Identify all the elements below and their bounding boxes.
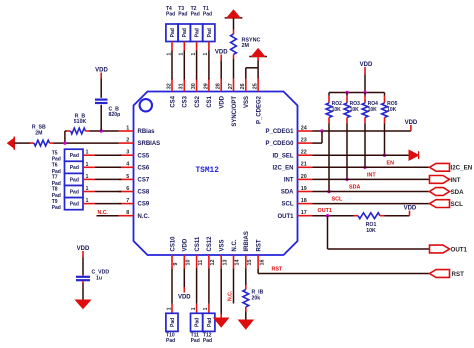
svg-text:CS3: CS3 <box>183 95 189 107</box>
svg-text:2M: 2M <box>242 43 250 49</box>
svg-text:INT: INT <box>451 177 461 184</box>
svg-text:31: 31 <box>179 83 185 89</box>
svg-text:Pad: Pad <box>178 12 187 18</box>
svg-text:SDA: SDA <box>281 190 294 196</box>
svg-text:VDD: VDD <box>183 238 189 251</box>
svg-text:12: 12 <box>210 260 216 266</box>
svg-text:OUT1: OUT1 <box>318 208 332 214</box>
svg-text:19: 19 <box>301 186 307 192</box>
svg-text:T9: T9 <box>52 199 58 205</box>
svg-text:Pad: Pad <box>170 318 176 327</box>
svg-text:20: 20 <box>301 174 307 180</box>
svg-text:CS1: CS1 <box>207 95 213 107</box>
svg-text:1: 1 <box>203 53 209 56</box>
svg-text:Pad: Pad <box>70 189 79 195</box>
svg-text:Pad: Pad <box>182 28 188 37</box>
svg-text:SRBIAS: SRBIAS <box>138 141 161 147</box>
svg-text:1: 1 <box>86 150 89 156</box>
svg-text:1: 1 <box>203 307 209 310</box>
svg-text:1: 1 <box>179 53 185 56</box>
svg-text:VDD: VDD <box>405 120 418 126</box>
svg-text:Pad: Pad <box>195 28 201 37</box>
svg-text:P_CDEG0: P_CDEG0 <box>265 141 294 147</box>
svg-text:1: 1 <box>86 198 89 204</box>
svg-text:1: 1 <box>86 174 89 180</box>
svg-text:VSS: VSS <box>244 96 250 108</box>
svg-text:SCL: SCL <box>451 201 464 208</box>
svg-text:10K: 10K <box>350 107 360 113</box>
svg-text:SDA: SDA <box>451 189 465 196</box>
svg-text:2M: 2M <box>35 130 42 136</box>
svg-text:25: 25 <box>253 83 259 89</box>
svg-text:15: 15 <box>247 260 253 266</box>
svg-text:Pad: Pad <box>70 202 79 208</box>
svg-text:VSS: VSS <box>220 239 226 251</box>
svg-text:5: 5 <box>126 174 129 180</box>
svg-text:7: 7 <box>126 198 129 204</box>
svg-text:9: 9 <box>173 263 179 266</box>
svg-text:T8: T8 <box>52 187 58 193</box>
svg-text:RBias: RBias <box>138 129 156 135</box>
svg-text:10K: 10K <box>366 228 376 234</box>
svg-text:Pad: Pad <box>52 205 61 211</box>
svg-text:10: 10 <box>186 260 192 266</box>
svg-text:20k: 20k <box>252 296 261 302</box>
svg-text:VDD: VDD <box>220 95 226 108</box>
svg-text:13: 13 <box>222 260 228 266</box>
svg-text:CS4: CS4 <box>170 95 176 107</box>
svg-text:N.C.: N.C. <box>228 290 234 301</box>
svg-text:Pad: Pad <box>191 12 200 18</box>
svg-text:510K: 510K <box>74 119 87 125</box>
svg-text:32: 32 <box>166 83 172 89</box>
svg-text:T5: T5 <box>52 150 58 156</box>
svg-text:18: 18 <box>301 198 307 204</box>
svg-text:1: 1 <box>86 186 89 192</box>
svg-text:T7: T7 <box>52 175 58 181</box>
svg-text:30: 30 <box>191 83 197 89</box>
svg-text:I2C_EN: I2C_EN <box>272 165 293 171</box>
svg-text:ID_SEL: ID_SEL <box>272 153 293 159</box>
svg-text:26: 26 <box>240 83 246 89</box>
svg-text:27: 27 <box>228 83 234 89</box>
svg-text:23: 23 <box>301 138 307 144</box>
svg-text:820p: 820p <box>109 112 121 118</box>
svg-text:1: 1 <box>191 53 197 56</box>
svg-text:RST: RST <box>452 271 465 278</box>
svg-text:10K: 10K <box>387 107 397 113</box>
svg-text:TSM12: TSM12 <box>195 167 219 175</box>
svg-text:N.C.: N.C. <box>98 210 109 216</box>
svg-text:INT: INT <box>284 178 294 184</box>
svg-text:CS2: CS2 <box>195 95 201 107</box>
svg-text:SDA: SDA <box>349 185 360 191</box>
svg-text:22: 22 <box>301 150 307 156</box>
svg-text:CS6: CS6 <box>138 165 150 171</box>
svg-text:T6: T6 <box>52 163 58 169</box>
svg-text:Pad: Pad <box>203 12 212 18</box>
svg-text:8: 8 <box>126 210 129 216</box>
svg-text:Pad: Pad <box>70 177 79 183</box>
svg-text:VDD: VDD <box>178 295 191 301</box>
svg-text:17: 17 <box>301 210 307 216</box>
svg-text:Pad: Pad <box>207 318 213 327</box>
svg-text:6: 6 <box>126 186 129 192</box>
svg-text:11: 11 <box>198 260 204 266</box>
svg-text:CS9: CS9 <box>138 202 150 208</box>
svg-text:10K: 10K <box>368 107 378 113</box>
svg-text:1: 1 <box>126 125 129 131</box>
svg-text:Pad: Pad <box>70 153 79 159</box>
svg-text:INT: INT <box>367 173 376 179</box>
svg-text:OUT1: OUT1 <box>451 246 468 253</box>
svg-text:CS5: CS5 <box>138 153 150 159</box>
svg-text:P_CDEG1: P_CDEG1 <box>265 129 294 135</box>
svg-text:24: 24 <box>301 125 307 131</box>
svg-text:21: 21 <box>301 162 307 168</box>
svg-text:14: 14 <box>235 260 241 266</box>
svg-text:P_CDEG2: P_CDEG2 <box>256 95 262 124</box>
svg-text:CS10: CS10 <box>170 236 176 252</box>
svg-text:2: 2 <box>126 138 129 144</box>
svg-text:Pad: Pad <box>166 12 175 18</box>
svg-text:RST: RST <box>256 239 262 251</box>
svg-text:N.C.: N.C. <box>138 214 150 220</box>
svg-text:I2C_EN: I2C_EN <box>451 165 473 172</box>
svg-text:VDD: VDD <box>360 62 373 68</box>
svg-text:Pad: Pad <box>166 338 175 344</box>
svg-text:CS8: CS8 <box>138 190 150 196</box>
svg-text:RST: RST <box>272 267 283 273</box>
svg-text:28: 28 <box>216 83 222 89</box>
svg-text:16: 16 <box>259 260 265 266</box>
svg-text:EN: EN <box>387 160 395 166</box>
svg-text:Pad: Pad <box>195 318 201 327</box>
svg-text:SYNC/OPT: SYNC/OPT <box>232 96 238 127</box>
svg-text:4: 4 <box>126 162 129 168</box>
svg-text:CS7: CS7 <box>138 178 150 184</box>
svg-text:1: 1 <box>86 162 89 168</box>
svg-text:SCL: SCL <box>332 197 343 203</box>
svg-text:Pad: Pad <box>191 338 200 344</box>
svg-text:1: 1 <box>191 307 197 310</box>
svg-text:CS12: CS12 <box>207 236 213 252</box>
svg-text:Pad: Pad <box>170 28 176 37</box>
svg-text:1: 1 <box>166 53 172 56</box>
svg-text:1: 1 <box>166 307 172 310</box>
svg-text:SCL: SCL <box>282 202 294 208</box>
svg-text:Pad: Pad <box>203 338 212 344</box>
svg-text:IRBIAS: IRBIAS <box>244 231 250 251</box>
svg-text:CS11: CS11 <box>195 236 201 251</box>
svg-text:10K: 10K <box>332 107 342 113</box>
svg-text:3: 3 <box>126 150 129 156</box>
svg-text:Pad: Pad <box>207 28 213 37</box>
svg-text:29: 29 <box>203 83 209 89</box>
svg-text:Pad: Pad <box>70 165 79 171</box>
svg-text:1u: 1u <box>96 276 102 282</box>
svg-text:OUT1: OUT1 <box>277 214 294 220</box>
svg-text:N.C.: N.C. <box>232 239 238 251</box>
